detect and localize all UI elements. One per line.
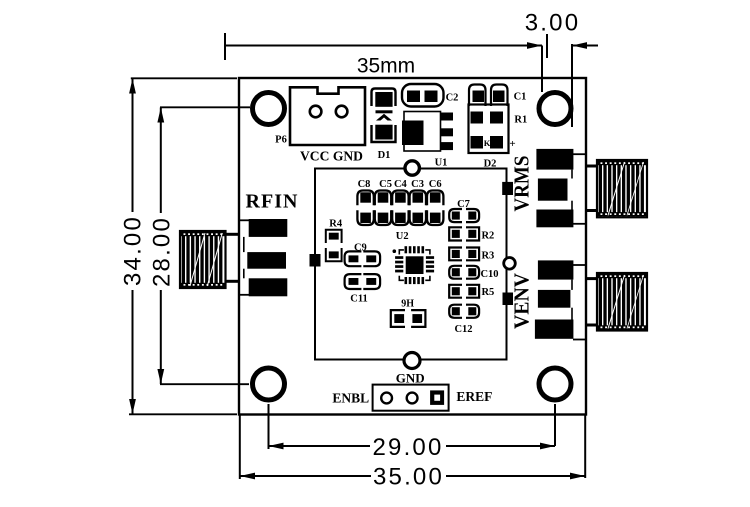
node pad on inner box right edge (VRMS): [502, 182, 513, 195]
svg-text:C6: C6: [429, 179, 442, 190]
svg-text:C10: C10: [480, 269, 498, 280]
svg-text:C11: C11: [350, 293, 368, 304]
svg-text:C4: C4: [394, 179, 408, 190]
via GND bottom of inner box: [404, 353, 420, 369]
header P2 ENBL/GND/EREF: [373, 385, 449, 411]
dimension 29.00 bottom: [269, 404, 556, 461]
svg-text:C1: C1: [514, 92, 527, 103]
capacitor C11: [345, 274, 381, 289]
svg-text:R3: R3: [481, 250, 494, 261]
svg-text:R1: R1: [514, 115, 527, 126]
dimension 3.00 top right: [525, 10, 598, 128]
board outline: [239, 78, 586, 415]
node pad on inner box right edge (VENV): [503, 293, 514, 306]
svg-text:3.00: 3.00: [525, 10, 581, 37]
svg-text:28.00: 28.00: [149, 216, 176, 287]
dimension 28.00 left inner: [149, 107, 251, 384]
connector J2 VRMS barrel: [586, 160, 647, 217]
svg-text:34.00: 34.00: [120, 215, 147, 286]
connector J3 VENV barrel: [586, 273, 647, 331]
svg-text:D1: D1: [378, 150, 391, 161]
svg-text:29.00: 29.00: [372, 434, 443, 461]
resistor R5: [449, 285, 479, 298]
capacitor C8: [357, 191, 373, 226]
svg-text:ENBL: ENBL: [332, 391, 369, 406]
svg-text:35.00: 35.00: [373, 464, 444, 491]
connector J2 VRMS pads: [536, 149, 585, 227]
svg-text:R2: R2: [481, 231, 494, 242]
dimension 35mm top: [225, 33, 542, 78]
svg-text:RFIN: RFIN: [246, 191, 299, 213]
diode D2 block with C1 R1: [469, 85, 509, 154]
connector P6 VCC/GND: [290, 87, 365, 145]
mounting hole bottom-left: [253, 368, 285, 400]
resistor R2: [449, 227, 479, 240]
capacitor C12: [449, 305, 479, 318]
svg-text:GND: GND: [396, 371, 425, 386]
svg-text:C5: C5: [379, 179, 392, 190]
capacitor C7: [449, 209, 479, 222]
regulator U1: [402, 112, 453, 152]
resistor R3: [449, 248, 479, 261]
svg-text:R5: R5: [481, 287, 494, 298]
svg-text:EREF: EREF: [456, 389, 492, 404]
svg-text:R4: R4: [329, 219, 343, 230]
resistor 9H pads: [391, 310, 426, 327]
svg-text:C2: C2: [446, 93, 459, 104]
resistor R4: [326, 230, 342, 262]
mounting hole bottom-right: [539, 368, 571, 400]
svg-text:U2: U2: [396, 231, 409, 242]
svg-text:K: K: [484, 138, 491, 148]
op-amp U2 QFN: [393, 246, 435, 284]
diode D1: [372, 89, 396, 143]
svg-text:VCC GND: VCC GND: [300, 150, 363, 165]
mounting hole P6 top-left: [253, 93, 285, 125]
svg-text:9H: 9H: [401, 299, 414, 310]
svg-text:+: +: [509, 138, 515, 150]
capacitor C2: [402, 84, 444, 107]
connector J1 RFIN barrel: [180, 231, 239, 288]
via right edge near C10: [504, 258, 516, 270]
capacitor C3: [410, 191, 426, 226]
svg-text:U1: U1: [435, 158, 448, 169]
svg-text:D2: D2: [484, 159, 497, 170]
svg-text:C8: C8: [358, 179, 371, 190]
node pad on inner box left edge: [310, 254, 321, 267]
svg-text:VENV: VENV: [510, 273, 534, 329]
dimension 34.00 left: [120, 78, 238, 414]
mounting hole top-right: [539, 93, 571, 125]
svg-text:C3: C3: [411, 179, 424, 190]
connector J3 VENV pads: [535, 260, 586, 339]
inner component area box: [315, 169, 507, 360]
dimension 35.00 bottom: [240, 414, 585, 491]
capacitor C10: [449, 266, 479, 279]
svg-text:C12: C12: [454, 324, 472, 335]
via top of inner box: [405, 161, 419, 175]
svg-text:35mm: 35mm: [357, 55, 415, 78]
svg-text:P6: P6: [275, 135, 287, 146]
capacitor C6: [427, 191, 443, 226]
capacitor C5: [375, 191, 391, 226]
capacitor C9: [345, 251, 381, 266]
svg-text:VRMS: VRMS: [510, 156, 534, 212]
connector J1 RFIN pads: [239, 219, 287, 296]
capacitor C4: [392, 191, 408, 226]
